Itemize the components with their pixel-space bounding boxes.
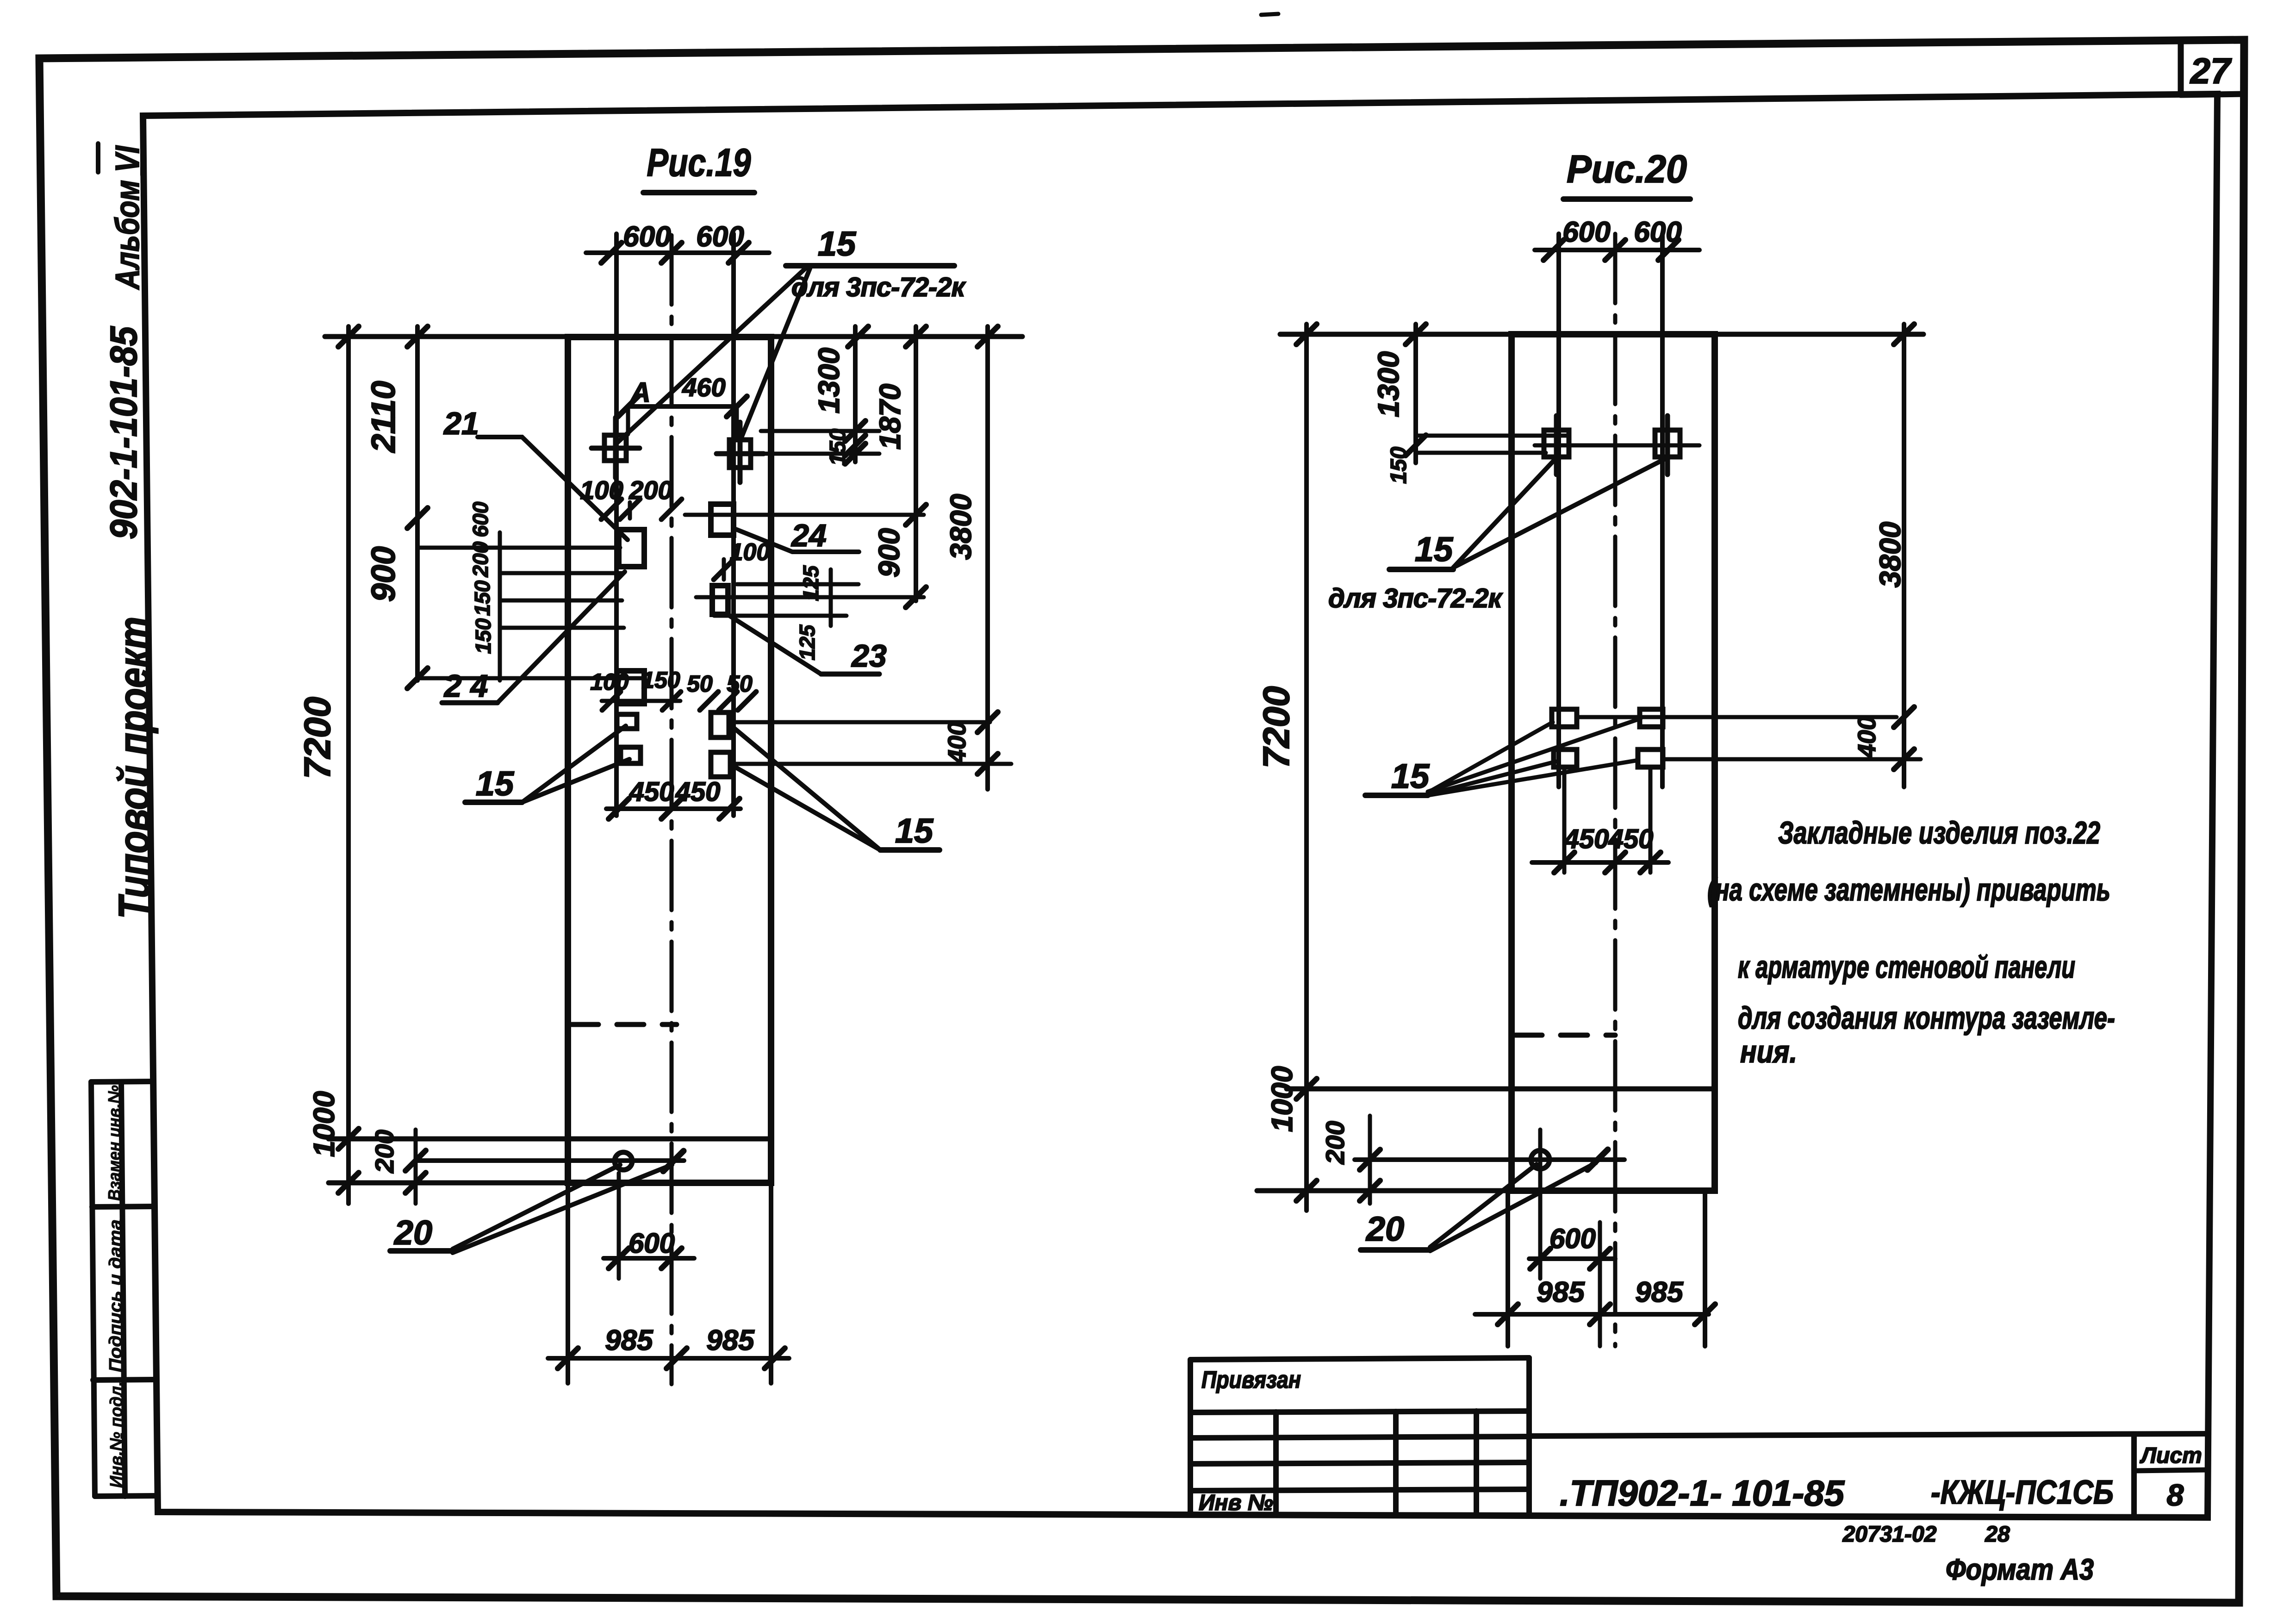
fig19 label 15 lower-right with leaders (730, 725, 940, 850)
fig19 dim 450 450 (606, 777, 740, 819)
fig19 small plate B2 (711, 752, 730, 777)
svg-text:1000: 1000 (1265, 1066, 1299, 1132)
fig19 label 24 with leader (734, 518, 859, 553)
svg-text:150: 150 (1387, 447, 1411, 484)
fig19 label 21 with leader (443, 406, 628, 540)
fig19 embedded plate 23 (712, 586, 728, 614)
figure 19 title (643, 141, 754, 193)
svg-text:20: 20 (1365, 1210, 1404, 1248)
svg-text:20731-02: 20731-02 (1842, 1522, 1937, 1547)
svg-text:1300: 1300 (812, 348, 846, 413)
svg-text:100: 100 (730, 539, 770, 566)
fig20 label 15 lower with leaders (1365, 718, 1641, 795)
fig19 bottom edge extension (329, 1181, 568, 1186)
fig20 small plate A1 (1552, 709, 1577, 727)
fig19 label 20 with leaders (390, 1165, 672, 1253)
fig19 dim 1000 200 bottom (307, 1091, 426, 1204)
svg-text:15: 15 (895, 812, 934, 850)
title bar top line (1529, 1434, 2208, 1436)
fig19 dim 985 985 (548, 1183, 789, 1383)
svg-text:3800: 3800 (944, 494, 977, 560)
svg-text:24: 24 (790, 518, 827, 553)
svg-text:150: 150 (641, 667, 680, 693)
fig19 bottom anchor line with circle (416, 1151, 684, 1171)
fig19 embedded plate lower-left 24 (617, 671, 644, 704)
svg-text:20: 20 (393, 1213, 432, 1252)
fig20 small plate B2 (1638, 750, 1663, 767)
svg-text:50: 50 (687, 671, 713, 697)
svg-text:900: 900 (365, 546, 402, 602)
fig19 embedded plate 24 right (711, 504, 734, 535)
svg-text:1000: 1000 (307, 1091, 341, 1157)
title block table (1190, 1358, 1529, 1514)
svg-text:1300: 1300 (1372, 351, 1405, 417)
stamp column boxes (91, 1081, 157, 1496)
fig19 panel outline (568, 337, 771, 1183)
svg-text:450: 450 (1608, 824, 1654, 854)
fig19 dim 3800 400 (943, 326, 998, 789)
fig19 extension 900 top (685, 513, 924, 517)
svg-text:3800: 3800 (1873, 522, 1907, 587)
svg-text:400: 400 (943, 722, 971, 764)
fig20 small plate A2 (1554, 750, 1577, 767)
svg-text:28: 28 (1985, 1522, 2010, 1547)
fig19 label 23 with leader (728, 615, 887, 674)
fig19 dim А 460 (618, 373, 747, 436)
svg-text:600: 600 (468, 501, 492, 537)
fig20 anchor column left (1556, 234, 1561, 787)
fig19 anchor bolt plate top-left (591, 418, 640, 478)
svg-text:600: 600 (628, 1228, 675, 1259)
fig19 extension 125 lines (696, 569, 924, 626)
top center mark (1261, 14, 1278, 15)
fig19 label 2 4 left with leader (442, 572, 625, 704)
svg-text:15: 15 (1391, 757, 1430, 795)
fig19 dim 1870 900 (872, 326, 926, 607)
svg-text:150: 150 (470, 580, 494, 616)
svg-text:125: 125 (799, 565, 823, 601)
fig19 top edge extension line (325, 326, 1022, 347)
svg-text:100: 100 (590, 669, 629, 695)
fig20 400 extension lines (1577, 717, 1921, 759)
svg-text:200: 200 (1320, 1121, 1350, 1164)
fig20 line through plates (1535, 443, 1699, 448)
fig19 dim 150 right (761, 421, 879, 466)
svg-text:50: 50 (727, 671, 753, 697)
svg-text:.ТП902-1- 101-85: .ТП902-1- 101-85 (1560, 1473, 1845, 1513)
svg-text:600: 600 (623, 221, 671, 253)
fig20 top edge extension line (1280, 324, 1923, 344)
fig19 label 15 lower-left with leaders (465, 726, 629, 803)
svg-text:Лист: Лист (2140, 1443, 2202, 1468)
svg-text:900: 900 (872, 528, 906, 578)
svg-text:15: 15 (476, 764, 515, 803)
fig19 panel dashed line (572, 1022, 677, 1027)
fig19 panel section line (329, 1137, 771, 1142)
svg-text:600: 600 (696, 221, 744, 253)
svg-text:для 3пс-72-2к: для 3пс-72-2к (791, 272, 966, 302)
svg-text:Типовой проект: Типовой проект (110, 617, 159, 919)
fig20 panel outline (1512, 334, 1715, 1191)
fig20 centerline (1613, 234, 1618, 1346)
fig19 anchor column left (614, 234, 619, 816)
fig20 dim 1000 200 bottom (1265, 1066, 1380, 1204)
fig20 panel dashed line (1515, 1033, 1615, 1038)
fig19 dims 100 150 50 50 (590, 667, 756, 710)
fig20 dim 450 450 (1532, 768, 1668, 873)
fig20 dim 985 985 (1475, 1192, 1715, 1346)
svg-text:1870: 1870 (873, 384, 907, 450)
svg-text:Инв №: Инв № (1199, 1491, 1273, 1515)
svg-text:Инв.№ подл.: Инв.№ подл. (107, 1381, 126, 1488)
svg-text:27: 27 (2190, 50, 2232, 91)
svg-text:Рис.20: Рис.20 (1567, 147, 1687, 191)
svg-text:к арматуре стеновой панели: к арматуре стеновой панели (1738, 949, 2075, 985)
svg-text:8: 8 (2167, 1478, 2184, 1512)
sheet number box Лист 8 (2134, 1435, 2207, 1514)
fig20 panel section line (1287, 1087, 1715, 1092)
svg-text:200: 200 (370, 1130, 399, 1173)
fig19 label 15 top with leaders (617, 225, 954, 443)
svg-text:ния.: ния. (1740, 1034, 1797, 1069)
fig20 anchor bolt plate top-right (1655, 416, 1680, 475)
svg-text:450: 450 (675, 777, 721, 807)
svg-text:15: 15 (1415, 530, 1454, 568)
svg-text:600: 600 (1549, 1223, 1596, 1254)
fig19 anchor column right (731, 234, 736, 816)
svg-text:450: 450 (1564, 824, 1609, 854)
svg-text:7200: 7200 (297, 697, 338, 779)
sheet inner frame (143, 94, 2217, 1518)
fig19 small plate A2 (621, 747, 641, 763)
svg-text:125: 125 (795, 624, 819, 660)
fig20 label 20 with leaders (1361, 1163, 1596, 1251)
page number box 27 (2181, 43, 2244, 95)
svg-text:21: 21 (443, 406, 479, 441)
svg-text:600: 600 (1562, 216, 1610, 248)
svg-text:Рис.19: Рис.19 (647, 141, 751, 184)
fig19 top dim 600 600 (586, 221, 769, 263)
svg-text:450: 450 (629, 777, 674, 807)
svg-text:460: 460 (682, 373, 725, 402)
svg-text:Привязан: Привязан (1201, 1367, 1301, 1393)
svg-text:23: 23 (851, 638, 887, 674)
svg-text:200: 200 (468, 541, 492, 577)
fig19 label 100 mid (714, 539, 770, 580)
fig19 dim 1300 (812, 326, 865, 462)
fig20 bottom anchor line with circle (1355, 1149, 1624, 1170)
svg-text:902-1-101-85: 902-1-101-85 (103, 326, 145, 539)
svg-text:-КЖЦ-ПС1СБ: -КЖЦ-ПС1СБ (1931, 1474, 2114, 1511)
fig19 400 extension lines (731, 722, 1011, 764)
fig19 dim 100 200 upper (580, 475, 682, 519)
fig19 dim line 7200 (297, 326, 359, 1204)
fig19 dim 600 bottom (604, 1173, 694, 1279)
fig20 label 15 with leaders (1389, 458, 1666, 569)
svg-text:200: 200 (628, 475, 672, 505)
svg-text:для 3пс-72-2к: для 3пс-72-2к (1328, 583, 1503, 613)
fig20 dim 1300 150 (1372, 324, 1569, 484)
fig20 dim line 7200 (1256, 324, 1317, 1211)
fig19 small plate A1 (617, 714, 637, 729)
fig19 extension to plates (417, 532, 644, 681)
figure 20 title (1563, 147, 1690, 199)
svg-text:для создания контура заземле-: для создания контура заземле- (1738, 1000, 2115, 1036)
fig20 anchor column right (1660, 234, 1665, 787)
fig20 bottom edge extension (1257, 1188, 1512, 1193)
fig19 labels 125 125 (795, 565, 823, 660)
svg-text:Закладные изделия поз.22: Закладные изделия поз.22 (1778, 815, 2100, 850)
svg-text:(на схеме затемнены) приварить: (на схеме затемнены) приварить (1707, 872, 2110, 907)
svg-text:985: 985 (605, 1324, 653, 1356)
svg-text:150: 150 (826, 429, 850, 466)
fig20 top dim 600 600 (1535, 216, 1699, 260)
fig19 embedded plate 21 left (619, 530, 644, 567)
svg-text:2110: 2110 (365, 381, 402, 454)
fig20 anchor bolt plate top-left (1544, 416, 1569, 475)
svg-text:Формат А3: Формат А3 (1946, 1553, 2094, 1586)
fig19 dim line 2110 900 (365, 326, 428, 688)
svg-text:985: 985 (706, 1324, 755, 1356)
svg-text:Взамен инв.№: Взамен инв.№ (105, 1085, 124, 1201)
fig20 dim 3800 (1873, 324, 1914, 787)
svg-text:7200: 7200 (1256, 686, 1297, 768)
svg-text:985: 985 (1635, 1276, 1684, 1308)
svg-text:15: 15 (818, 225, 857, 263)
svg-text:400: 400 (1853, 716, 1881, 758)
svg-text:985: 985 (1537, 1276, 1585, 1308)
fig19 anchor bolt plate top-right (716, 422, 764, 482)
svg-text:150: 150 (471, 618, 495, 654)
fig20 dim 600 bottom (1529, 1130, 1615, 1279)
svg-text:Подпись и дата: Подпись и дата (106, 1219, 125, 1372)
fig20 small plate B1 (1640, 709, 1663, 727)
fig19 centerline (670, 235, 674, 1384)
fig19 small plate B1 (711, 712, 729, 737)
svg-text:2 4: 2 4 (443, 668, 488, 704)
fig19 small dims 600 200 150 150 (468, 501, 495, 654)
